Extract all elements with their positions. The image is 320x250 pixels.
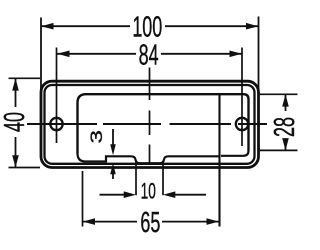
svg-text:3: 3 (88, 130, 106, 143)
svg-text:65: 65 (140, 207, 160, 239)
svg-text:40: 40 (0, 112, 31, 132)
svg-text:10: 10 (141, 178, 156, 203)
svg-text:84: 84 (139, 39, 159, 71)
svg-text:28: 28 (269, 117, 300, 137)
